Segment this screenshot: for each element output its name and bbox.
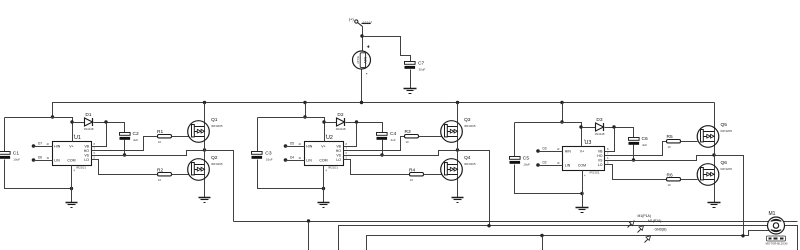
svg-text:V+: V+ — [580, 150, 584, 154]
svg-text:U2: U2 — [326, 135, 333, 141]
svg-text:Q3: Q3 — [464, 117, 471, 123]
svg-text:HO: HO — [84, 149, 90, 153]
svg-text:Q1: Q1 — [211, 117, 218, 123]
svg-text:IRF3205: IRF3205 — [211, 162, 223, 166]
svg-text:10: 10 — [668, 145, 672, 149]
svg-text:HO: HO — [597, 154, 603, 158]
svg-text:M1(P1A): M1(P1A) — [638, 214, 651, 218]
svg-text:C5: C5 — [523, 156, 530, 162]
svg-text:C7: C7 — [418, 61, 425, 67]
svg-text:Q4: Q4 — [464, 155, 471, 161]
svg-text:R1: R1 — [157, 129, 163, 135]
svg-text:VB: VB — [84, 144, 89, 148]
svg-text:C2: C2 — [133, 131, 140, 137]
svg-text:VS: VS — [598, 158, 603, 162]
svg-text:IRF3205: IRF3205 — [721, 167, 733, 171]
svg-text:10uF: 10uF — [523, 162, 530, 166]
svg-text:LIN: LIN — [306, 159, 312, 163]
svg-text:10: 10 — [410, 178, 414, 182]
svg-text:VS: VS — [336, 153, 341, 157]
svg-text:C4: C4 — [390, 131, 397, 137]
svg-text:10: 10 — [406, 140, 410, 144]
svg-text:D3: D3 — [596, 117, 602, 123]
svg-text:HIN: HIN — [565, 150, 572, 154]
svg-text:IRF3205: IRF3205 — [464, 124, 476, 128]
svg-text:10uF: 10uF — [266, 157, 273, 161]
svg-text:C6: C6 — [642, 136, 649, 142]
svg-text:D1: D1 — [85, 112, 91, 118]
svg-text:10: 10 — [158, 178, 162, 182]
svg-text:D6: D6 — [38, 155, 42, 159]
svg-text:(+): (+) — [349, 17, 355, 22]
svg-text:1N4148: 1N4148 — [595, 132, 605, 136]
svg-text:B3.6V: B3.6V — [356, 57, 360, 65]
svg-text:D3: D3 — [543, 146, 547, 150]
svg-text:HIN: HIN — [54, 145, 61, 149]
svg-text:V+: V+ — [321, 145, 325, 149]
svg-text:HIN: HIN — [306, 145, 313, 149]
svg-text:VB: VB — [598, 149, 603, 153]
svg-text:D5: D5 — [290, 141, 294, 145]
svg-text:LIN: LIN — [565, 164, 571, 168]
svg-text:VB: VB — [336, 144, 341, 148]
svg-text:1N4148: 1N4148 — [84, 127, 94, 131]
svg-text:MOTOR-BLDCM: MOTOR-BLDCM — [766, 241, 788, 245]
svg-text:Q5: Q5 — [721, 122, 728, 128]
svg-text:COM: COM — [67, 159, 75, 163]
svg-text:4uF: 4uF — [391, 138, 396, 142]
svg-text:IRF3205: IRF3205 — [464, 162, 476, 166]
svg-text:D7: D7 — [38, 141, 42, 145]
svg-text:D2: D2 — [337, 112, 343, 118]
svg-text:IRF3205: IRF3205 — [211, 124, 223, 128]
svg-text:3.6V: 3.6V — [363, 57, 367, 65]
svg-text:D4: D4 — [290, 155, 294, 159]
svg-text:D2: D2 — [543, 160, 547, 164]
svg-text:IR2101: IR2101 — [328, 166, 338, 170]
svg-text:10: 10 — [668, 183, 672, 187]
svg-text:VS: VS — [84, 153, 89, 157]
svg-text:IR2101: IR2101 — [590, 171, 600, 175]
svg-text:COM: COM — [319, 159, 327, 163]
svg-text:10uF: 10uF — [13, 157, 20, 161]
svg-text:4uF: 4uF — [133, 138, 138, 142]
svg-text:4uF: 4uF — [642, 143, 647, 147]
svg-text:V+: V+ — [69, 145, 73, 149]
svg-text:-: - — [366, 71, 368, 77]
svg-text:R4: R4 — [409, 167, 415, 173]
svg-text:Q2: Q2 — [211, 155, 218, 161]
svg-text:HO: HO — [336, 149, 342, 153]
svg-text:30uF: 30uF — [419, 67, 426, 71]
svg-text:IRF3205: IRF3205 — [721, 129, 733, 133]
svg-text:R6: R6 — [667, 172, 673, 178]
svg-text:LIN: LIN — [54, 159, 60, 163]
svg-text:M1: M1 — [769, 211, 776, 217]
svg-text:R3: R3 — [405, 129, 411, 135]
svg-text:C3: C3 — [265, 151, 272, 157]
svg-text:U3: U3 — [585, 140, 592, 146]
svg-text:IR2101: IR2101 — [76, 166, 86, 170]
svg-text:M1(P2A): M1(P2A) — [648, 219, 661, 223]
svg-text:LO: LO — [336, 158, 341, 162]
svg-text:LO: LO — [598, 163, 603, 167]
svg-text:10: 10 — [158, 140, 162, 144]
svg-text:R5: R5 — [667, 134, 673, 140]
svg-text:GND(B): GND(B) — [655, 228, 667, 232]
svg-text:1N4148: 1N4148 — [336, 127, 346, 131]
svg-text:LO: LO — [84, 158, 89, 162]
svg-text:U1: U1 — [74, 135, 81, 141]
svg-text:COM: COM — [578, 164, 586, 168]
svg-text:Q6: Q6 — [721, 160, 728, 166]
svg-text:C1: C1 — [13, 151, 20, 157]
svg-text:R2: R2 — [157, 167, 163, 173]
